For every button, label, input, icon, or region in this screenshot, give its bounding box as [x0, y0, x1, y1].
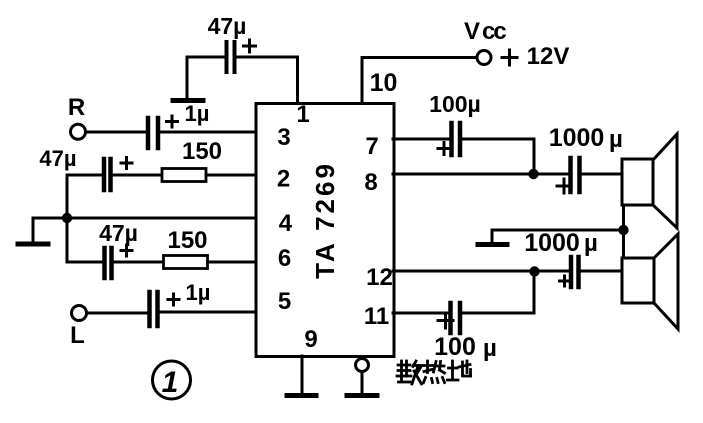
ground G3 — [478, 230, 507, 245]
wire R to C1 — [86, 131, 146, 134]
capacitor C8 100u plates — [451, 303, 461, 333]
wire heatsink down — [361, 372, 364, 394]
junction node D — [529, 266, 539, 276]
capacitor C7 1000u plates — [571, 257, 579, 287]
svg-text:100µ: 100µ — [429, 91, 481, 117]
svg-text:12V: 12V — [527, 43, 570, 70]
glyph san — [397, 361, 422, 384]
svg-text:1: 1 — [162, 366, 179, 399]
capacitor C1 1u plates — [148, 118, 158, 148]
svg-text:µ: µ — [609, 126, 623, 153]
svg-text:11: 11 — [364, 303, 389, 330]
wire LS1 return — [622, 205, 625, 230]
label heatsink ground text — [397, 361, 471, 384]
terminal R input circle — [71, 124, 86, 139]
plus mark C3 — [121, 245, 132, 256]
plus mark C2 — [121, 158, 132, 169]
terminal L input circle — [72, 306, 87, 321]
junction node A — [62, 213, 72, 223]
wire R1 to pin2 — [206, 174, 256, 177]
wire C7 to speaker LS2 — [581, 270, 623, 273]
glyph re — [424, 361, 445, 383]
svg-text:7: 7 — [365, 133, 378, 160]
svg-text:47µ: 47µ — [99, 220, 138, 246]
svg-text:L: L — [70, 322, 85, 349]
svg-text:6: 6 — [278, 245, 291, 272]
wire R2 to pin6 — [208, 261, 257, 264]
wire C1 to pin3 — [160, 131, 256, 134]
svg-text:µ: µ — [584, 230, 598, 257]
junction node B — [528, 169, 538, 179]
wire row6 left — [67, 261, 103, 264]
wire pin1 vertical — [236, 57, 298, 103]
svg-text:9: 9 — [304, 326, 317, 353]
svg-text:cc: cc — [482, 18, 506, 45]
plus mark C8 — [438, 313, 453, 328]
IC U1 TA7269 body — [256, 104, 394, 357]
wire C2 to R1 — [112, 174, 163, 177]
svg-text:47µ: 47µ — [39, 146, 76, 171]
svg-text:150: 150 — [182, 138, 222, 165]
wire L to C4 — [87, 312, 147, 315]
svg-text:12: 12 — [366, 264, 393, 291]
plus mark C7 — [560, 276, 571, 286]
wire pin11 to C8 — [393, 312, 449, 315]
svg-text:1µ: 1µ — [186, 280, 211, 305]
plus mark C5 — [438, 143, 450, 155]
svg-text:150: 150 — [167, 227, 207, 254]
wire 47u top left — [187, 57, 226, 98]
wire pin8 row — [393, 173, 569, 176]
wire Vcc rail — [362, 58, 477, 104]
wire C8 up to node D — [462, 272, 534, 313]
svg-text:47µ: 47µ — [208, 13, 247, 39]
wire pin12 row — [393, 270, 570, 273]
plus mark C1 — [167, 116, 178, 127]
svg-text:1µ: 1µ — [185, 101, 210, 126]
svg-text:2: 2 — [277, 166, 290, 193]
svg-text:4: 4 — [279, 210, 293, 237]
wire speaker ground row — [492, 229, 624, 232]
wire C4 to pin5 — [160, 311, 257, 314]
plus mark top cap — [244, 40, 256, 52]
resistor R2 150 — [164, 256, 208, 269]
ground G2 left — [18, 218, 48, 244]
capacitor C4 1u plates — [150, 292, 158, 326]
wire pin9 down — [301, 356, 304, 393]
wire pin7 to C5 — [393, 138, 450, 141]
junction node C — [618, 225, 628, 235]
capacitor C9 47u top plates — [227, 42, 235, 72]
svg-text:3: 3 — [277, 124, 290, 151]
ground G5 heatsink — [347, 393, 377, 398]
annotation circled 1 — [153, 361, 191, 399]
svg-text:1000: 1000 — [549, 124, 605, 152]
svg-text:TA 7269: TA 7269 — [310, 161, 340, 279]
wire LS2 top — [622, 230, 625, 259]
svg-text:8: 8 — [364, 169, 377, 196]
svg-text:10: 10 — [370, 69, 398, 97]
capacitor C3 47u plates — [105, 248, 112, 278]
svg-text:R: R — [68, 94, 85, 121]
svg-text:V: V — [464, 18, 480, 45]
resistor R1 150 — [162, 169, 206, 182]
speaker LS2 — [622, 234, 678, 329]
terminal heatsink circle — [356, 359, 369, 372]
wire vertical row2-row6 — [66, 175, 69, 262]
wire ground row pin4 — [33, 217, 256, 220]
ground G1 top bar — [173, 98, 203, 103]
plus mark C6 — [557, 179, 571, 193]
svg-text:100: 100 — [434, 333, 476, 361]
capacitor C6 1000u plates — [571, 158, 580, 192]
capacitor C5 100u plates — [452, 123, 461, 155]
svg-text:5: 5 — [278, 288, 291, 315]
ground G4 pin9 — [287, 393, 316, 398]
glyph di — [448, 361, 471, 380]
svg-text:µ: µ — [483, 335, 497, 362]
svg-text:1: 1 — [296, 101, 309, 128]
speaker LS1 — [622, 134, 677, 228]
wire C5 to node B — [462, 139, 534, 174]
plus mark C4 — [168, 294, 179, 305]
wire C3 to R2 — [113, 261, 164, 264]
capacitor C2 47u plates — [104, 159, 111, 190]
wire C6 to speaker LS1 — [582, 173, 623, 176]
plus mark Vcc — [502, 50, 517, 65]
terminal Vcc circle — [477, 51, 491, 65]
wire row2 left — [67, 174, 103, 177]
svg-text:1000: 1000 — [524, 229, 580, 257]
